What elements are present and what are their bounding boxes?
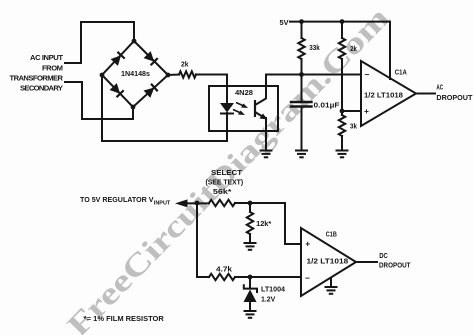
- ground (optocoupler emitter): [260, 150, 273, 159]
- LT1004 bent cathode bar: [244, 285, 257, 292]
- node: bridge top: [132, 39, 137, 44]
- wire: 4.7k to C1B - input: [235, 276, 301, 278]
- svg-text:*= 1% FILM RESISTOR: *= 1% FILM RESISTOR: [84, 314, 165, 323]
- svg-text:1/2 LT1018: 1/2 LT1018: [364, 91, 403, 100]
- svg-text:−: −: [365, 69, 370, 79]
- ground (3k): [336, 150, 349, 159]
- resistor 3k: [341, 111, 343, 115]
- svg-text:1N4148s: 1N4148s: [121, 69, 150, 78]
- svg-text:INPUT: INPUT: [154, 201, 171, 207]
- node: 33k / 5V rail: [299, 19, 304, 24]
- svg-text:+: +: [305, 239, 310, 249]
- svg-text:SELECT: SELECT: [211, 168, 243, 177]
- phototransistor collector lead: [255, 99, 266, 106]
- node: bridge left: [100, 73, 105, 78]
- svg-text:4.7k: 4.7k: [216, 264, 232, 273]
- svg-text:2k: 2k: [350, 44, 357, 53]
- diode D4 (bottom-right) 1N4148: [144, 84, 158, 98]
- svg-text:4N28: 4N28: [235, 88, 253, 97]
- svg-text:TO 5V REGULATOR V: TO 5V REGULATOR V: [80, 195, 154, 204]
- svg-text:2k: 2k: [181, 60, 189, 69]
- svg-text:FROM: FROM: [42, 64, 63, 73]
- resistor 33k: [301, 22, 303, 38]
- diode D2 (top-right) 1N4148: [144, 51, 158, 65]
- svg-text:DC: DC: [379, 251, 388, 260]
- resistor 2k (divider top): [341, 22, 343, 38]
- node: 56k input junction: [195, 201, 200, 206]
- wire: 2k to LED anode: [196, 75, 227, 104]
- svg-text:DROPOUT: DROPOUT: [436, 93, 472, 102]
- svg-text:1.2V: 1.2V: [261, 294, 275, 303]
- zener reference LT1004 stem: [249, 277, 251, 288]
- svg-text:C1B: C1B: [326, 230, 337, 239]
- optocoupler U1 4N28 box: [209, 86, 278, 131]
- svg-text:C1A: C1A: [395, 67, 408, 76]
- svg-text:AC: AC: [436, 82, 443, 91]
- svg-text:SECONDARY: SECONDARY: [20, 84, 63, 93]
- node: 4.7k / LT1004 junction: [248, 275, 253, 280]
- phototransistor emitter lead with arrow: [255, 112, 265, 118]
- svg-text:(SEE TEXT): (SEE TEXT): [205, 177, 243, 186]
- 5V rail: [290, 22, 390, 79]
- capacitor 0.01uF: [301, 75, 303, 102]
- ground (LT1004): [244, 310, 257, 319]
- svg-text:5V: 5V: [280, 18, 289, 27]
- wire: phototransistor emitter to ground: [265, 118, 267, 150]
- svg-text:DROPOUT: DROPOUT: [379, 260, 411, 269]
- wire: C1A output: [416, 93, 435, 95]
- node: bridge right: [166, 73, 171, 78]
- svg-text:TRANSFORMER: TRANSFORMER: [10, 74, 64, 83]
- svg-text:56k*: 56k*: [213, 187, 232, 196]
- wire: bottom rail to optocoupler LED cathode: [102, 113, 227, 141]
- svg-text:0.01µF: 0.01µF: [314, 101, 341, 110]
- node: 33k / cap / minus input: [299, 72, 304, 77]
- svg-text:12k*: 12k*: [256, 219, 271, 228]
- ground (12k): [244, 242, 257, 251]
- node: bridge bottom: [131, 105, 136, 110]
- input arrow (to 5V regulator): [175, 199, 188, 207]
- wire: bottom arrow lead to 56k: [186, 202, 209, 204]
- svg-text:+: +: [364, 106, 369, 116]
- node: 2k / 3k / plus input: [340, 109, 345, 114]
- comparator C1B triangle: [301, 228, 356, 296]
- svg-text:LT1004: LT1004: [261, 284, 285, 293]
- svg-text:−: −: [305, 273, 310, 283]
- wire: C1B ground stem: [330, 278, 332, 286]
- resistor 2k (bridge output): [168, 74, 179, 77]
- svg-text:1/2 LT1018: 1/2 LT1018: [307, 256, 349, 265]
- wire: 2k down across to + input node: [342, 59, 361, 111]
- resistor 12k: [249, 203, 251, 212]
- node: 56k / 12k junction: [248, 201, 253, 206]
- wire: AC input top lead: [65, 22, 134, 63]
- svg-text:33k: 33k: [309, 43, 320, 52]
- LED light arrow 1: [236, 103, 245, 107]
- wire: AC input bottom lead: [65, 82, 133, 119]
- node: 2k / 5V rail: [340, 19, 345, 24]
- optocoupler LED: [220, 103, 234, 113]
- diode D3 (left-bottom) 1N4148: [110, 83, 124, 97]
- ground (capacitor): [295, 150, 308, 159]
- wire: junction down to 4.7k: [197, 203, 209, 277]
- resistor 56k: [209, 200, 235, 206]
- svg-text:AC INPUT: AC INPUT: [30, 53, 63, 62]
- phototransistor base bar: [254, 100, 256, 117]
- wire: phototransistor collector up to node: [266, 75, 361, 99]
- ground (C1B): [325, 286, 338, 295]
- LT1004 anode stem to ground: [249, 302, 251, 310]
- wire: C1B output: [356, 261, 377, 263]
- resistor 4.7k: [209, 274, 235, 280]
- label: AC INPUT FROM TRANSFORMER SECONDARY: [10, 53, 64, 93]
- LED light arrow 2: [233, 110, 242, 114]
- wire: 56k to C1B + input: [235, 203, 301, 244]
- comparator C1A triangle: [361, 61, 416, 126]
- LT1004 triangle (anode): [244, 290, 257, 303]
- svg-text:3k: 3k: [350, 122, 358, 131]
- diode bridge frame: [102, 41, 168, 107]
- wire: bridge left vertex to bottom rail: [101, 75, 103, 141]
- diode D1 (left-top) 1N4148: [111, 52, 125, 66]
